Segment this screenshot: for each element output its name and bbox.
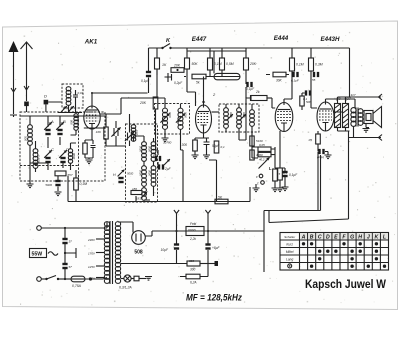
svg-text:317: 317	[351, 93, 356, 97]
primary tap 4	[96, 277, 105, 279]
svg-text:B: B	[63, 119, 66, 124]
svg-text:170V: 170V	[88, 252, 96, 256]
bus riser to volume	[249, 187, 251, 202]
svg-text:5000: 5000	[127, 172, 134, 176]
svg-text:0,1µF: 0,1µF	[291, 79, 299, 83]
resistor 5K on bus	[215, 199, 228, 204]
svg-text:E444: E444	[274, 35, 289, 42]
filter riser 1 with fork	[174, 210, 179, 214]
svg-text:D: D	[326, 235, 330, 241]
svg-text:125V: 125V	[88, 265, 96, 269]
HT return wire 300	[121, 263, 187, 265]
ground below input box	[29, 163, 31, 184]
mains bottom wire	[58, 278, 71, 280]
svg-text:230V: 230V	[87, 238, 96, 242]
dial lamp	[124, 275, 131, 282]
mains plug terminal bottom	[37, 277, 42, 282]
E447 cathode cap 50uF	[206, 138, 208, 142]
filter cap 10uF	[174, 243, 179, 245]
switch contact C2	[261, 181, 265, 185]
svg-text:5K: 5K	[218, 196, 223, 200]
osc coil band3 left	[142, 188, 147, 201]
primary tap 1	[96, 238, 105, 240]
svg-text:0000: 0000	[72, 153, 76, 160]
svg-text:Kapsch Juwel W: Kapsch Juwel W	[305, 277, 386, 291]
padder capacitor 2uF	[155, 150, 158, 155]
antenna 1 (earth/short antenna)	[9, 41, 19, 52]
svg-text:0,1M: 0,1M	[214, 62, 222, 66]
svg-text:300: 300	[182, 143, 188, 147]
electrolytic wires	[338, 97, 350, 131]
output transformer primary	[351, 108, 356, 127]
IF1 secondary coil	[178, 108, 183, 129]
filter cap 8uF	[205, 243, 210, 245]
cap 55	[313, 72, 315, 77]
svg-text:508: 508	[134, 250, 143, 256]
AK1 cathode resistor	[85, 129, 93, 143]
coil L3 000	[74, 114, 78, 131]
E447 cathode grounds	[194, 151, 196, 155]
svg-text:c: c	[257, 182, 259, 186]
RC cluster 20K resistor	[171, 68, 184, 73]
IF2 tertiary winding	[250, 110, 255, 127]
svg-text:0,1µF: 0,1µF	[246, 87, 255, 91]
line filter cap 2	[64, 244, 66, 263]
tuning gang capacitor 2	[128, 133, 132, 141]
svg-text:0,01: 0,01	[78, 91, 84, 95]
svg-text:000: 000	[70, 120, 74, 125]
svg-text:6,3/1,2A: 6,3/1,2A	[119, 286, 132, 290]
0,2uF coupling cap	[165, 73, 172, 82]
svg-text:C: C	[51, 147, 54, 152]
svg-text:E443H: E443H	[321, 36, 340, 43]
detector filter resistor 2k	[246, 87, 251, 101]
mains top wire	[41, 227, 107, 229]
trimmer D	[59, 150, 67, 158]
resistor 50K screen	[186, 48, 188, 58]
IF1 primary coil	[162, 108, 167, 129]
coil L1 500	[28, 125, 33, 146]
svg-text:L: L	[269, 166, 272, 171]
ground bus horizontal	[68, 201, 250, 203]
volume cap 0,1uF	[275, 168, 285, 171]
capacitor ground lower left	[57, 187, 59, 192]
screen rail segment	[187, 50, 246, 52]
speaker connection arrow bottom	[349, 137, 382, 139]
cap 0,1uF E444	[292, 72, 294, 77]
E443H cathode resistor	[317, 131, 319, 134]
svg-text:0000: 0000	[188, 229, 196, 233]
E443H plate wire to output transformer	[326, 99, 356, 112]
osc coil band2 right	[151, 166, 156, 187]
resistor 180 osc bottom	[131, 191, 142, 195]
box internal partition horizontal	[20, 165, 79, 167]
svg-text:300: 300	[189, 259, 194, 263]
trimmer B	[56, 122, 64, 130]
AK1 grid cap wire	[92, 93, 148, 106]
box internal bottom wires	[30, 135, 76, 170]
grid cap 0,1uF	[148, 48, 150, 71]
E443H cathode down wire	[317, 152, 319, 211]
padding cap row 1 wires	[20, 116, 105, 148]
svg-text:0,1µF: 0,1µF	[289, 173, 298, 177]
switch contact C1	[259, 174, 263, 178]
table header cell shading	[300, 233, 307, 239]
svg-text:50K: 50K	[192, 62, 199, 66]
svg-text:05: 05	[309, 138, 313, 142]
volume wires	[252, 132, 258, 158]
E444 plate resistor 0,1M	[291, 48, 293, 58]
svg-text:C: C	[318, 235, 322, 241]
resistor 5K horizontal	[192, 74, 206, 79]
scan noise speckle	[254, 31, 257, 34]
resistor 30K	[273, 72, 286, 77]
svg-text:0,2µF: 0,2µF	[174, 81, 183, 85]
svg-text:G: G	[350, 235, 354, 241]
svg-text:57: 57	[69, 265, 73, 269]
E444 grid wire	[272, 98, 275, 108]
cap 0,1uF right of 20K	[245, 82, 247, 84]
AK1 plate load resistor 10K	[105, 114, 107, 127]
IF2 wires	[226, 104, 252, 132]
AK1 input wire	[84, 127, 105, 129]
primary top lead	[106, 222, 108, 228]
mains plug terminal top	[37, 226, 42, 231]
svg-text:30K: 30K	[276, 79, 283, 83]
svg-text:180: 180	[132, 187, 137, 191]
svg-text:MF = 128,5kHz: MF = 128,5kHz	[186, 293, 243, 303]
capacitor 5000	[57, 176, 59, 180]
IF transformer 2 box (dashed)	[219, 104, 259, 132]
band switch table	[280, 233, 389, 271]
rectifier cathode wire B+	[145, 231, 263, 236]
elongated tone capacitor	[214, 73, 240, 79]
svg-text:2k: 2k	[255, 90, 260, 94]
tube E447	[196, 105, 212, 133]
trimmer C	[44, 150, 52, 158]
tube E444	[275, 103, 293, 132]
svg-text:Lang: Lang	[286, 258, 293, 262]
power rating 55W box	[30, 249, 47, 258]
E447 grid cap	[203, 77, 205, 106]
series trimmers above box	[61, 106, 67, 112]
resistor 1K	[156, 48, 158, 58]
svg-text:300: 300	[190, 268, 196, 272]
svg-text:30780: 30780	[163, 141, 172, 145]
electrolytic capacitors +T40	[335, 104, 341, 128]
bus wire volume to output	[264, 155, 349, 272]
svg-text:1815: 1815	[136, 197, 143, 201]
speaker connection arrow top	[350, 96, 382, 98]
svg-text:H: H	[113, 173, 116, 177]
osc coil band2 left	[142, 166, 147, 187]
field coil Feld 0000 2,2k	[186, 227, 204, 236]
svg-text:0,5: 0,5	[283, 171, 288, 175]
svg-text:6,2A: 6,2A	[190, 281, 197, 285]
E443H grid wire	[311, 96, 317, 108]
svg-text:Kurz: Kurz	[286, 243, 293, 247]
svg-text:500: 500	[24, 136, 28, 141]
AVC resistor 657	[55, 171, 66, 176]
svg-text:D: D	[44, 94, 47, 99]
input tuned-circuit box (dashed)	[20, 112, 105, 181]
E443H cathode cap 10uF	[317, 144, 319, 151]
antenna terminal square	[24, 102, 29, 107]
speaker ground	[366, 124, 369, 128]
rectifier plate wire	[118, 222, 133, 233]
volume resistor 1K	[258, 152, 271, 156]
svg-text:10µF: 10µF	[161, 248, 169, 252]
tube E443H	[317, 102, 334, 131]
resistor 2,5M	[221, 48, 223, 58]
B+ rail	[149, 47, 350, 49]
AK1 cathode bypass cap	[91, 140, 96, 152]
primary tap 2	[96, 252, 105, 254]
output transformer secondary	[358, 109, 363, 126]
svg-text:20K: 20K	[249, 62, 257, 66]
osc coil internal wires	[134, 136, 154, 200]
svg-text:5000: 5000	[45, 183, 52, 187]
heater resistor small	[131, 278, 134, 280]
svg-text:H: H	[358, 235, 362, 241]
osc coil band1 left	[142, 142, 147, 162]
svg-text:1K: 1K	[162, 63, 167, 67]
antenna coil winding	[66, 87, 71, 106]
osc to bus wire	[135, 196, 137, 202]
svg-text:0,005: 0,005	[37, 155, 41, 163]
ground-bus riser from box	[67, 176, 69, 202]
output transformer core	[356, 108, 358, 127]
terminal D	[44, 100, 49, 105]
resistor 20K osc	[156, 69, 158, 97]
resistor 0,1M	[209, 48, 211, 58]
svg-text:20K: 20K	[173, 64, 181, 68]
svg-text:20K: 20K	[139, 101, 147, 105]
svg-text:0,5M: 0,5M	[226, 62, 234, 66]
antenna 2 (main antenna)	[21, 42, 33, 49]
heater ground	[145, 277, 152, 281]
coupling cap 0,1	[305, 90, 307, 95]
osc coil band1 right	[151, 142, 156, 162]
speaker cone	[373, 107, 382, 128]
oscillator coil box (dashed)	[126, 124, 158, 202]
tube AK1	[84, 106, 100, 129]
screen divider wire to bus	[209, 160, 217, 202]
svg-text:2,2k: 2,2k	[189, 237, 196, 241]
svg-text:0,1M: 0,1M	[296, 63, 304, 67]
IF2 secondary down wire	[239, 97, 246, 140]
line filter center tap	[65, 248, 76, 258]
svg-text:E447: E447	[192, 36, 207, 43]
IF1 wires	[165, 98, 181, 134]
coil L4 0000	[68, 149, 72, 164]
IF1 secondary to E447 grid	[181, 134, 184, 202]
AC tilde symbol	[48, 252, 58, 256]
svg-text:55W: 55W	[32, 252, 43, 258]
E443H grid resistor 0,3M	[310, 48, 312, 58]
resistor 20K agc	[245, 48, 247, 58]
volume grounds	[255, 184, 257, 188]
heater wire	[121, 278, 124, 280]
rectifier tube 508	[132, 231, 146, 245]
resistor 0,3M to bus	[75, 170, 77, 178]
right B+ drop wire	[348, 131, 350, 219]
filter riser 2 with fork	[205, 210, 210, 214]
IF2 secondary coil	[237, 108, 242, 129]
power transformer core	[110, 221, 113, 284]
svg-text:J: J	[367, 235, 370, 241]
table contact dots	[302, 242, 305, 245]
speaker magnet	[364, 111, 373, 124]
svg-text:A: A	[301, 235, 306, 241]
mains switch	[41, 278, 46, 280]
box internal partition vertical	[78, 112, 80, 181]
power transformer primary winding	[104, 222, 109, 284]
wire cap to AK1 grid line	[148, 78, 150, 94]
svg-text:0,05: 0,05	[259, 143, 265, 147]
antenna series capacitor	[73, 90, 78, 105]
svg-text:37: 37	[69, 240, 73, 244]
line filter cap 1	[64, 228, 66, 238]
fuse 0,75A	[71, 276, 85, 282]
svg-text:AK1: AK1	[84, 39, 98, 46]
svg-text:5k: 5k	[196, 81, 200, 85]
trimmer A	[44, 122, 52, 130]
E447 screen wire	[187, 76, 196, 106]
IF1 ground	[164, 134, 166, 138]
svg-text:Mittel: Mittel	[286, 250, 294, 254]
E447 cathode resistor 300	[195, 133, 209, 140]
svg-text:B: B	[310, 235, 314, 241]
svg-text:J: J	[152, 153, 155, 157]
volume potentiometer arrow	[259, 158, 270, 169]
svg-text:55: 55	[312, 78, 316, 82]
svg-text:0,3M: 0,3M	[80, 182, 88, 186]
AK1 plate wire to IF1	[100, 98, 165, 114]
svg-text:E: E	[334, 235, 338, 241]
diode load resistor 4000	[251, 146, 253, 150]
fuse right terminal	[85, 278, 103, 280]
volume bottom resistor	[274, 158, 276, 168]
svg-text:Schalter: Schalter	[284, 235, 296, 239]
resistor 50K vert	[302, 92, 303, 94]
svg-text:+8µF: +8µF	[212, 246, 220, 250]
power transformer secondary winding	[115, 222, 120, 284]
E444 cathode resistor	[279, 131, 281, 168]
wire small box to main box	[75, 105, 77, 112]
primary tap 3	[96, 265, 105, 267]
E447 plate to IF2	[212, 111, 220, 113]
svg-text:2µF: 2µF	[164, 167, 172, 171]
IF transformer 1 box (dashed)	[155, 104, 190, 135]
svg-text:Feld: Feld	[190, 222, 196, 226]
svg-text:c: c	[256, 175, 258, 179]
svg-text:0,1: 0,1	[221, 145, 226, 149]
svg-text:0,3M: 0,3M	[315, 63, 323, 67]
osc coupling coil	[131, 125, 136, 142]
diode load resistor 5100	[251, 132, 253, 136]
svg-text:A: A	[50, 119, 54, 124]
svg-text:L: L	[383, 235, 386, 241]
switch K	[161, 47, 163, 49]
rail corner down right	[349, 48, 351, 97]
AK1 cathode ground	[85, 152, 93, 160]
trimmer H	[118, 170, 125, 177]
tuning gang capacitor 1	[114, 128, 118, 136]
IF2 primary coil	[224, 108, 229, 129]
antenna coupling coil box (dashed)	[62, 84, 83, 108]
coil L2 0,005	[33, 149, 38, 169]
volume resistor 0,05	[258, 147, 271, 151]
svg-text:110V: 110V	[88, 277, 96, 281]
svg-text:0,75A: 0,75A	[72, 284, 82, 288]
resistor 0,2A	[120, 271, 122, 273]
mains cap to chassis	[64, 269, 66, 279]
